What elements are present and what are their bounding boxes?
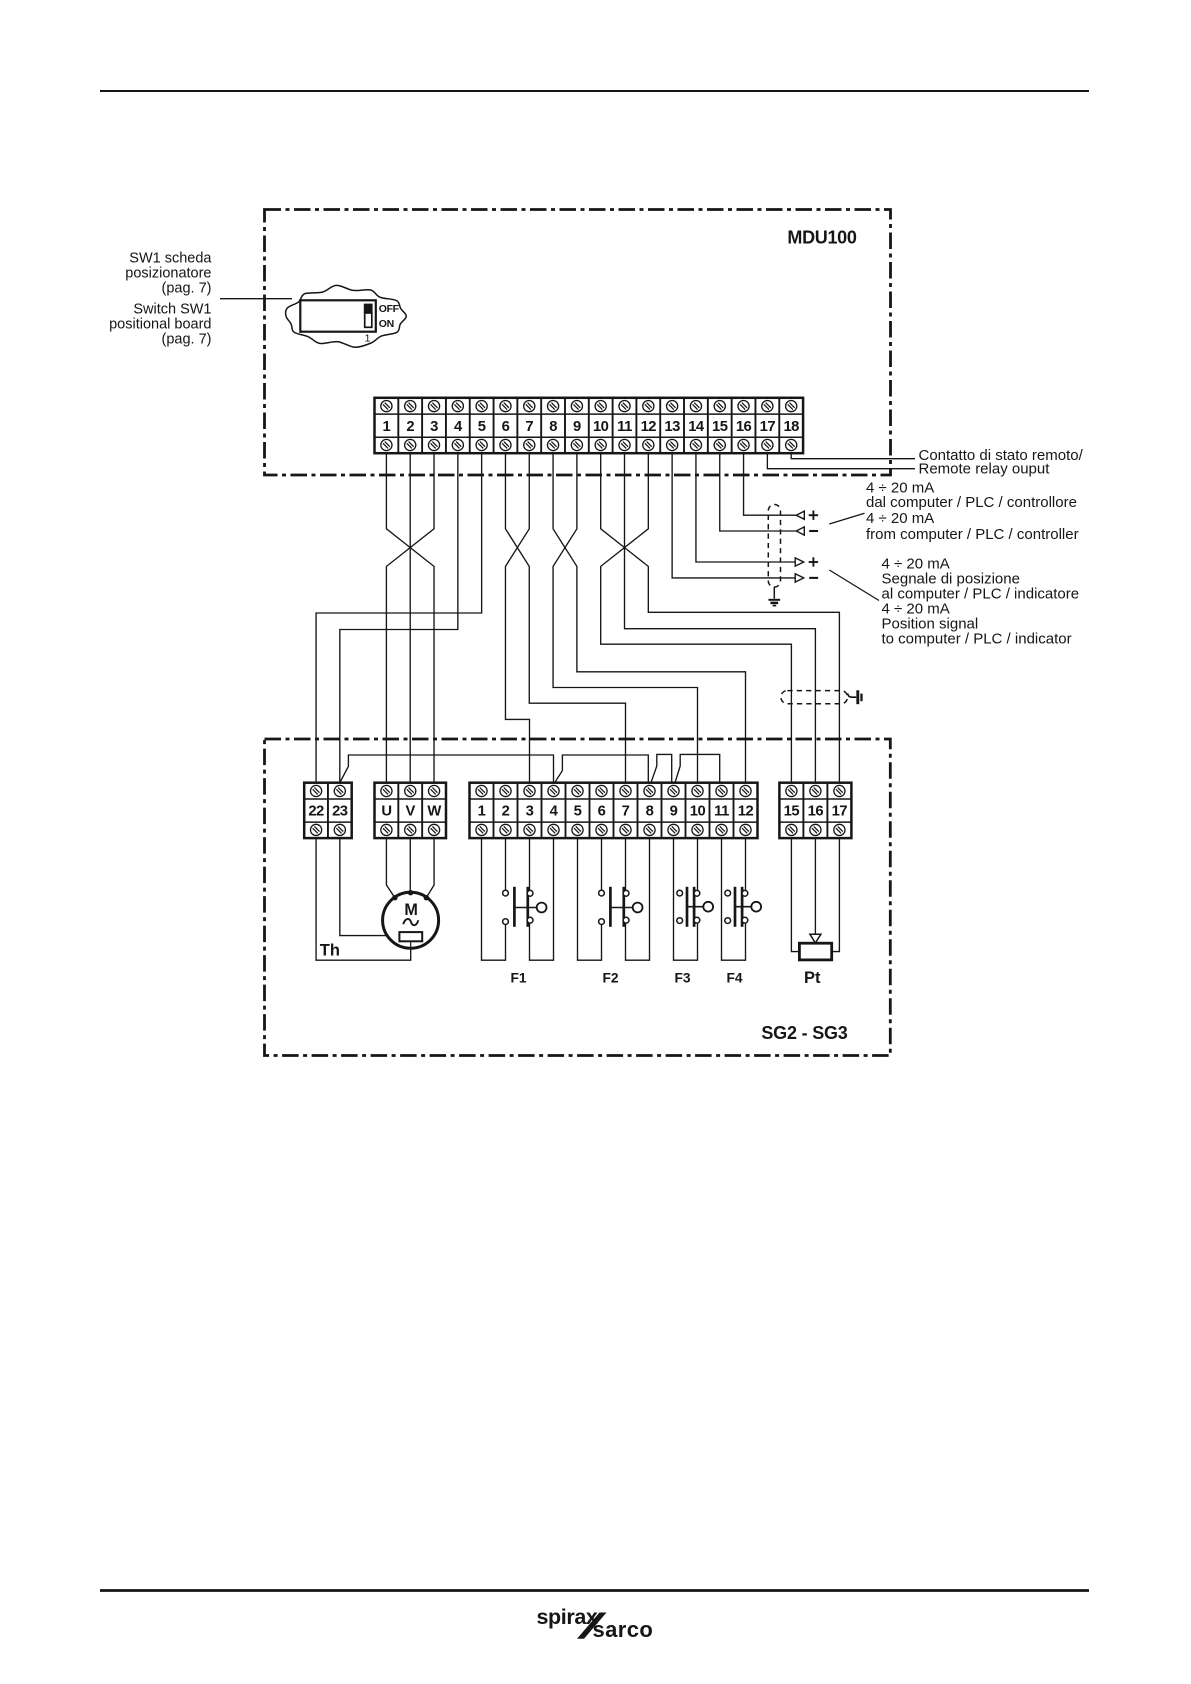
wire T4 to terminal 23 — [340, 453, 458, 783]
wire W to motor — [426, 838, 434, 898]
wire T16 input signal plus — [744, 453, 797, 515]
svg-text:Th: Th — [320, 941, 340, 959]
svg-text:M: M — [404, 901, 417, 919]
wire T15 input signal minus — [720, 453, 797, 531]
page top rule — [100, 90, 1089, 92]
cable screen (dashed) for analogue signals — [768, 505, 780, 588]
screen earth ground — [768, 587, 780, 606]
jumper SG terminal 9 to 11 — [675, 754, 720, 782]
wire T17 remote relay contact — [767, 453, 915, 469]
svg-text:1: 1 — [478, 804, 486, 820]
wire T6 to SG terminal 7 (twisted) — [505, 453, 625, 783]
wire 15 to potentiometer — [791, 838, 799, 952]
wire V to motor — [409, 838, 411, 892]
svg-text:1: 1 — [383, 419, 391, 435]
terminal strip MDU100 1-18 — [375, 398, 804, 453]
svg-text:12: 12 — [738, 804, 754, 820]
svg-text:10: 10 — [690, 804, 706, 820]
wire F1 right pole top — [529, 838, 531, 890]
svg-text:Pt: Pt — [804, 969, 821, 987]
svg-text:positional board: positional board — [109, 317, 211, 333]
potentiometer Pt — [799, 934, 831, 960]
svg-text:SW1 scheda: SW1 scheda — [129, 251, 212, 267]
svg-text:(pag. 7): (pag. 7) — [162, 281, 212, 297]
svg-text:5: 5 — [574, 804, 582, 820]
terminal block SG 22-23 — [304, 783, 352, 838]
MDU100 enclosure (dash-dot box) — [265, 210, 891, 476]
svg-text:U: U — [381, 804, 391, 820]
svg-text:MDU100: MDU100 — [787, 228, 857, 248]
svg-text:11: 11 — [617, 419, 632, 435]
svg-text:8: 8 — [646, 804, 654, 820]
wire F4 top — [745, 838, 747, 890]
svg-text:16: 16 — [736, 419, 752, 435]
wire 17 to potentiometer — [832, 838, 840, 952]
limit switch F2: wire F2 left pole bottom — [578, 838, 602, 960]
svg-text:3: 3 — [430, 419, 438, 435]
wire T18 remote relay contact — [791, 453, 915, 459]
wire T9 to SG terminal 10 (twisted) — [553, 453, 697, 783]
switch F2 contacts — [599, 887, 643, 927]
wire T12 to SG terminal 15 (twisted) — [601, 453, 792, 783]
svg-text:13: 13 — [664, 419, 680, 435]
limit switch F4: wire F4 bottom — [722, 838, 746, 960]
wire F2 left pole top — [601, 838, 603, 890]
svg-text:W: W — [427, 804, 441, 820]
svg-text:SG2 - SG3: SG2 - SG3 — [761, 1023, 847, 1043]
svg-text:2: 2 — [502, 804, 510, 820]
clamp chassis connection — [848, 690, 862, 704]
svg-text:4: 4 — [550, 804, 559, 820]
svg-text:10: 10 — [593, 419, 609, 435]
SG2-SG3 enclosure (dash-dot box) — [265, 739, 891, 1056]
leader line to position signal text — [829, 570, 879, 601]
thermal protector Th (in motor) — [399, 932, 422, 947]
wire T8 to SG terminal 12 (twisted) — [553, 453, 745, 783]
svg-text:17: 17 — [760, 419, 776, 435]
arrow output - — [795, 574, 804, 582]
svg-text:(pag. 7): (pag. 7) — [162, 332, 212, 348]
svg-text:F1: F1 — [510, 970, 526, 985]
svg-text:from computer / PLC / controll: from computer / PLC / controller — [866, 526, 1079, 543]
arrow output + (position signal) — [795, 558, 804, 566]
svg-text:8: 8 — [549, 419, 557, 435]
svg-text:11: 11 — [714, 804, 729, 820]
wire U to motor — [386, 838, 394, 898]
svg-text:14: 14 — [688, 419, 705, 435]
leader line to input signal text — [829, 513, 864, 524]
svg-text:9: 9 — [573, 419, 581, 435]
svg-text:16: 16 — [808, 804, 824, 820]
motor M1 (single phase) — [383, 890, 439, 948]
svg-text:3: 3 — [526, 804, 534, 820]
label 4-20 mA from computer — [866, 479, 1079, 543]
svg-text:4: 4 — [454, 419, 463, 435]
svg-text:Switch SW1: Switch SW1 — [133, 301, 211, 317]
svg-text:5: 5 — [478, 419, 486, 435]
plus sign — [809, 511, 818, 520]
svg-text:18: 18 — [783, 419, 799, 435]
svg-text:sarco: sarco — [593, 1617, 654, 1642]
wire T11 to SG terminal 16 — [625, 453, 816, 783]
svg-text:ON: ON — [379, 318, 394, 330]
svg-text:6: 6 — [598, 804, 606, 820]
svg-text:F4: F4 — [726, 970, 742, 985]
svg-text:7: 7 — [622, 804, 630, 820]
svg-text:7: 7 — [525, 419, 533, 435]
svg-text:V: V — [406, 804, 416, 820]
limit switch F1: wire F1 left pole bottom — [482, 838, 506, 960]
label SW1 switch (italian/english) — [109, 251, 212, 348]
jumper SG terminal 8 to 9 — [651, 754, 672, 782]
spirax sarco logo — [537, 1605, 654, 1642]
svg-text:F3: F3 — [674, 970, 690, 985]
svg-text:dal computer / PLC / controllo: dal computer / PLC / controllore — [866, 494, 1077, 511]
jumper SG terminal 4 to 8 — [555, 755, 649, 783]
wire 22 to motor thermal contact — [316, 838, 411, 960]
svg-text:17: 17 — [832, 804, 848, 820]
svg-text:posizionatore: posizionatore — [125, 266, 211, 282]
minus sign — [809, 577, 818, 579]
wire F2 right pole bottom — [626, 838, 650, 960]
limit switch F3: wire F3 bottom — [674, 838, 698, 960]
label remote relay output — [919, 447, 1084, 478]
svg-text:F2: F2 — [602, 970, 618, 985]
terminal block SG 15-16-17 — [779, 783, 851, 838]
switch F4 contacts — [725, 887, 761, 927]
wire F1 right pole bottom — [530, 838, 554, 960]
svg-text:1: 1 — [365, 332, 371, 344]
wire 16 to potentiometer wiper — [814, 838, 816, 934]
wire T7 to SG terminal 3 (twisted) — [505, 453, 529, 783]
wire T3 to U (twisted) — [386, 453, 434, 783]
wire T1 to W (twisted) — [386, 453, 434, 783]
svg-text:2: 2 — [406, 419, 414, 435]
svg-text:Remote relay ouput: Remote relay ouput — [919, 461, 1051, 478]
svg-text:15: 15 — [712, 419, 728, 435]
svg-text:4 ÷ 20 mA: 4 ÷ 20 mA — [866, 510, 934, 527]
svg-text:to computer / PLC / indicator: to computer / PLC / indicator — [882, 631, 1072, 648]
jumper 23 to SG terminal 4 — [340, 755, 554, 783]
SW1 detail blob outline — [286, 285, 407, 347]
wire T14 position signal plus — [696, 453, 795, 562]
svg-text:OFF: OFF — [379, 303, 400, 315]
svg-text:12: 12 — [641, 419, 657, 435]
label 4-20 mA position signal — [882, 555, 1080, 647]
minus sign — [809, 530, 818, 532]
wire F3 top — [697, 838, 699, 890]
wire T2 to V — [409, 453, 411, 783]
wire T13 position signal minus — [672, 453, 795, 578]
switch F1 contacts — [503, 887, 547, 927]
switch SW1 body — [300, 300, 376, 331]
svg-text:15: 15 — [784, 804, 800, 820]
svg-text:6: 6 — [502, 419, 510, 435]
wire F2 right pole top — [625, 838, 627, 890]
plus sign — [809, 557, 818, 566]
switch F3 contacts — [677, 887, 713, 927]
terminal block SG U-V-W — [375, 783, 446, 838]
page bottom rule — [100, 1589, 1089, 1592]
wire T10 to SG terminal 17 (twisted) — [601, 453, 840, 783]
arrow input + (4-20 mA from PLC) — [796, 511, 804, 519]
wire 23 to motor thermal contact — [340, 838, 400, 936]
svg-text:9: 9 — [670, 804, 678, 820]
wire T5 to terminal 22 — [316, 453, 482, 783]
terminal strip SG 1-12 — [470, 783, 758, 838]
switch SW1 DIP actuator — [364, 304, 373, 328]
svg-text:23: 23 — [332, 804, 348, 820]
svg-text:22: 22 — [308, 804, 324, 820]
leader line to SW1 detail — [220, 298, 292, 300]
cable screen clamp (dashed) for potentiometer wires — [781, 691, 848, 704]
wire F1 left pole top — [505, 838, 507, 890]
arrow input - — [796, 527, 804, 535]
